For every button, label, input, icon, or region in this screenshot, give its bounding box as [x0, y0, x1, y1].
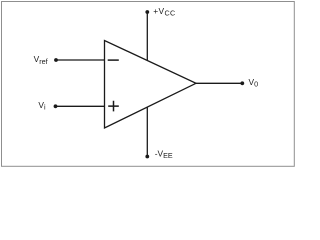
wire +VCC supply [146, 12, 148, 61]
wire V0 output [196, 82, 242, 84]
wire Vi input [56, 105, 105, 107]
node Vref terminal [54, 58, 58, 62]
svg-text:Vi: Vi [38, 100, 46, 112]
node -VEE terminal [145, 155, 149, 159]
node +VCC terminal [145, 10, 149, 14]
op-amp U1 inverting input marker (-) [108, 59, 119, 61]
node Vi terminal [54, 104, 58, 108]
node V0 terminal [240, 81, 244, 85]
svg-text:+VCC: +VCC [153, 6, 175, 18]
wire Vref input [56, 59, 105, 61]
op-amp U1 [105, 41, 197, 129]
op-amp U1 non-inverting input marker (+) [108, 101, 119, 112]
wire -VEE supply [146, 107, 148, 157]
